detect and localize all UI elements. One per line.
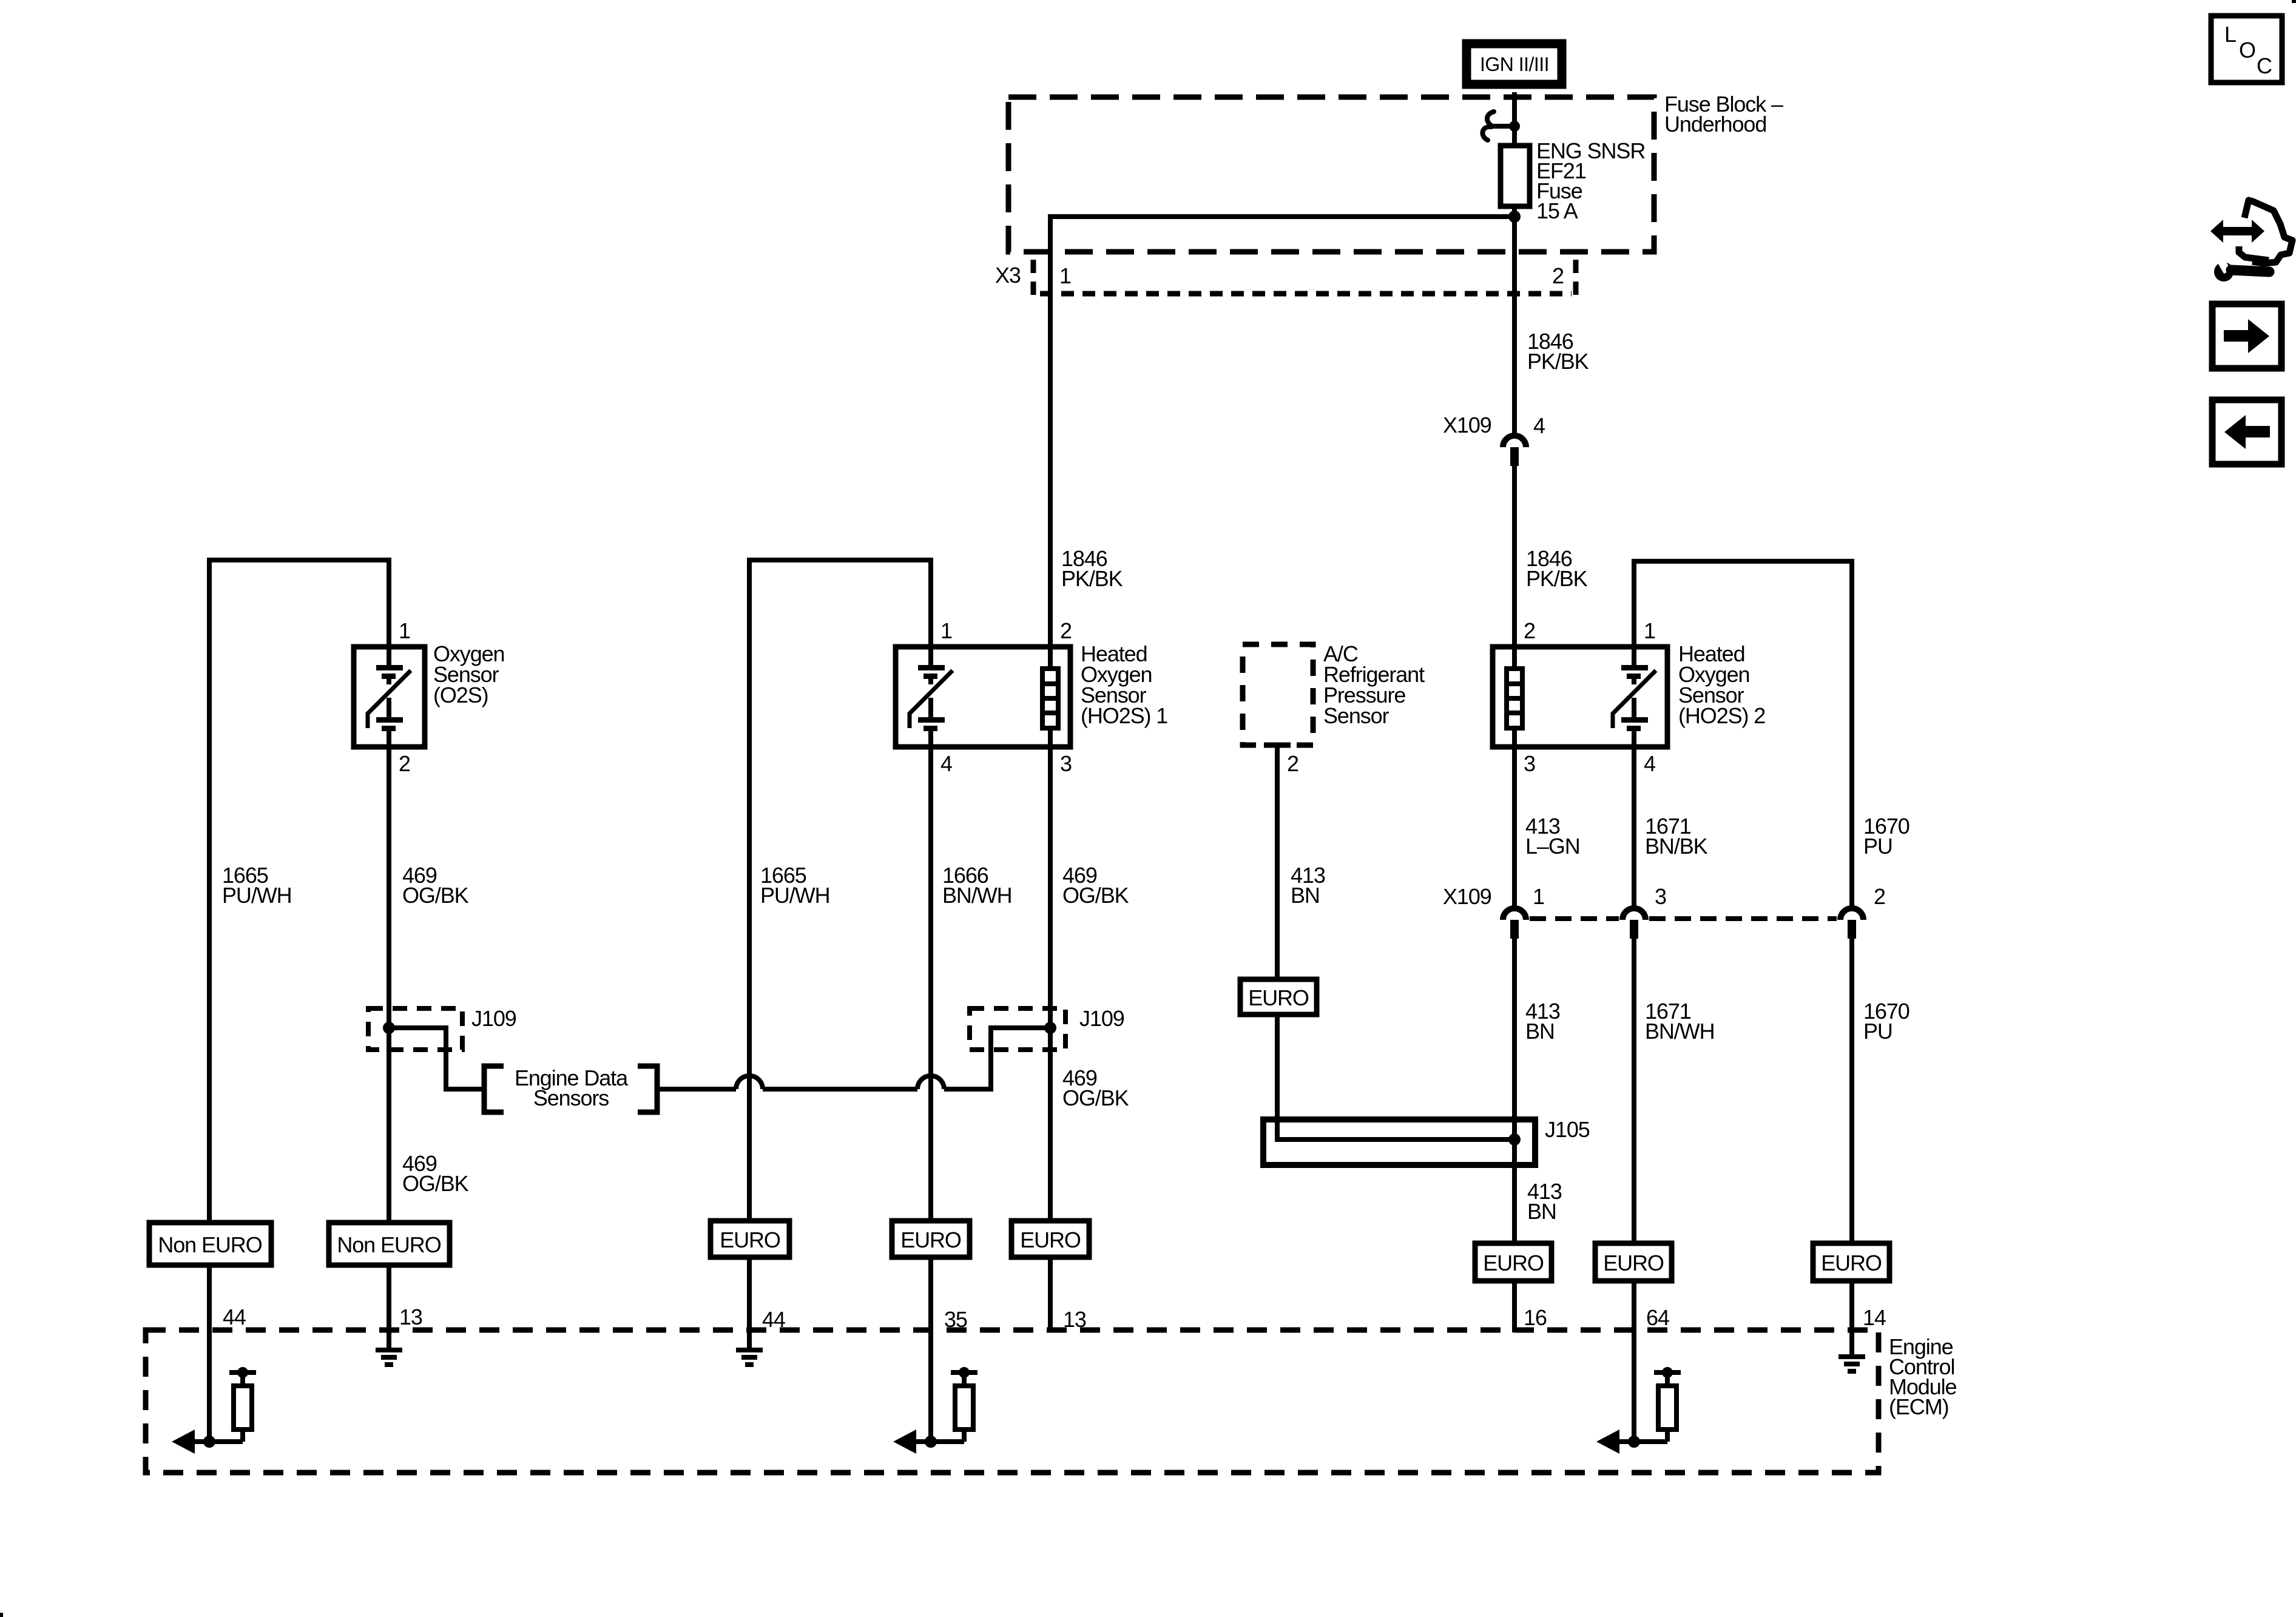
wire EURO right3 to ECM pin 14 — [1849, 1281, 1854, 1354]
label wire 413 BN (below X109) — [1525, 999, 1560, 1044]
label Fuse Block - Underhood — [1664, 92, 1783, 137]
label wire 1846 PK/BK (upper right) — [1527, 329, 1589, 374]
connector X109 pin 2 — [1840, 908, 1863, 939]
svg-text:3: 3 — [1655, 884, 1666, 909]
svg-text:IGN II/III: IGN II/III — [1480, 53, 1549, 75]
label wire 1671 BN/BK — [1645, 814, 1708, 859]
pin 2 label HO2S1 — [1060, 618, 1072, 643]
HO2S2 sensor element — [1613, 647, 1656, 747]
svg-text:15 A: 15 A — [1536, 198, 1578, 223]
pin 3 label HO2S2 — [1524, 751, 1535, 776]
label ENG SNSR EF21 Fuse 15 A — [1536, 138, 1645, 223]
svg-text:OG/BK: OG/BK — [1062, 1085, 1129, 1110]
svg-text:L: L — [2224, 22, 2236, 47]
wire HO2S2 pin3 down 413 L-GN — [1512, 747, 1517, 906]
svg-text:OG/BK: OG/BK — [402, 883, 469, 908]
fuse block underhood dashed box — [1008, 97, 1654, 252]
tag box EURO A/C — [1240, 979, 1317, 1014]
label wire 413 L-GN — [1525, 814, 1580, 859]
svg-text:2: 2 — [1552, 263, 1564, 288]
svg-text:EURO: EURO — [1821, 1251, 1882, 1275]
wire horizontal branch to X3 pin 1 — [1050, 217, 1514, 255]
wire X109 pin3 down 1671 BN/WH — [1632, 939, 1636, 1243]
wire EURO mid1 to ECM pin 44 — [747, 1257, 752, 1348]
label wire 1671 BN/WH (below X109) — [1645, 999, 1715, 1044]
svg-text:OG/BK: OG/BK — [1062, 883, 1129, 908]
svg-text:J105: J105 — [1545, 1117, 1590, 1142]
tag box EURO right 2 — [1595, 1243, 1672, 1281]
svg-text:13: 13 — [399, 1305, 422, 1329]
bracket left Engine Data Sensors — [484, 1066, 504, 1112]
pin 3 label HO2S1 — [1060, 751, 1072, 776]
tag box EURO mid 2 — [892, 1221, 970, 1257]
svg-text:16: 16 — [1524, 1305, 1547, 1330]
oxygen sensor O2S box — [354, 647, 425, 747]
label X109 (lower) — [1443, 884, 1491, 909]
label A/C Refrigerant Pressure Sensor — [1323, 641, 1425, 728]
pin 4 label X109 — [1533, 413, 1545, 438]
resistor pullup ECM pin 64 — [1654, 1367, 1681, 1442]
svg-text:3: 3 — [1524, 751, 1535, 776]
connector X109 dashed row line — [1530, 916, 1837, 921]
splice J105 box — [1263, 1119, 1535, 1165]
page corner mark top right — [2292, 0, 2296, 3]
splice J109 right dashed box — [970, 1008, 1065, 1050]
svg-text:PK/BK: PK/BK — [1526, 566, 1588, 591]
svg-text:PU: PU — [1863, 1019, 1893, 1044]
svg-text:BN: BN — [1525, 1019, 1555, 1044]
label wire 1670 PU (below X109) — [1863, 999, 1909, 1044]
wire top-right horizontal HO2S2 pin1 branch 1670 PU — [1634, 561, 1852, 906]
splice dot J109 right — [1044, 1022, 1056, 1034]
pin 1 label X109 — [1533, 884, 1544, 909]
wire top-left horizontal O2S pin1 branch — [209, 560, 389, 1223]
svg-text:(HO2S) 1: (HO2S) 1 — [1081, 703, 1167, 728]
tag box EURO mid 3 — [1011, 1221, 1089, 1257]
connector X109 pin 3 — [1622, 908, 1646, 939]
svg-text:X3: X3 — [995, 263, 1021, 288]
svg-text:EURO: EURO — [1020, 1227, 1081, 1252]
pin 44 label ECM left — [223, 1305, 246, 1329]
wire HO2S1 pin4 down 1666 BN/WH — [928, 747, 933, 1224]
ground symbol ECM pin 44 mid — [736, 1348, 763, 1367]
svg-text:2: 2 — [1060, 618, 1072, 643]
pin 1 label X3 — [1059, 263, 1071, 288]
label wire 1666 BN/WH (mid) — [942, 863, 1012, 908]
svg-text:PK/BK: PK/BK — [1527, 349, 1589, 374]
svg-text:PU/WH: PU/WH — [760, 883, 830, 908]
icon box arrow left — [2212, 400, 2281, 464]
junction dot at fuse top — [1509, 121, 1520, 132]
svg-text:2: 2 — [1287, 751, 1298, 776]
wire X3 pin 2 drop — [1512, 217, 1517, 433]
svg-text:C: C — [2257, 53, 2272, 78]
label J109 left — [471, 1006, 516, 1031]
label Oxygen Sensor (O2S) — [433, 641, 504, 707]
svg-text:PK/BK: PK/BK — [1061, 566, 1123, 591]
svg-text:3: 3 — [1060, 751, 1072, 776]
svg-text:1: 1 — [1644, 618, 1655, 643]
pin 3 label X109 — [1655, 884, 1666, 909]
svg-text:2: 2 — [1874, 884, 1885, 909]
svg-text:OG/BK: OG/BK — [402, 1171, 469, 1196]
svg-text:2: 2 — [1524, 618, 1535, 643]
svg-text:Non EURO: Non EURO — [158, 1232, 262, 1257]
arrow internal ECM pin 64 — [1596, 1430, 1667, 1454]
pin 64 label ECM — [1646, 1305, 1669, 1330]
pin 4 label HO2S1 — [940, 751, 952, 776]
bracket right Engine Data Sensors — [638, 1066, 657, 1112]
svg-text:64: 64 — [1646, 1305, 1669, 1330]
wire fuse bottom to junction — [1512, 206, 1517, 219]
label wire 469 OG/BK (mid upper) — [1062, 863, 1129, 908]
label Heated Oxygen Sensor (HO2S) 2 — [1678, 641, 1765, 728]
resistor pullup ECM pin 44 — [229, 1367, 256, 1442]
svg-text:L–GN: L–GN — [1525, 834, 1580, 859]
arrow internal ECM pin 35 — [893, 1430, 964, 1454]
wire X109 pin4 to HO2S2 pin 2 — [1512, 466, 1517, 647]
label J105 — [1545, 1117, 1590, 1142]
svg-text:BN/WH: BN/WH — [1645, 1019, 1715, 1044]
wire X109 pin2 down 1670 PU — [1849, 939, 1854, 1243]
tag box EURO right 3 — [1813, 1243, 1889, 1281]
svg-text:EURO: EURO — [1483, 1251, 1544, 1275]
wire X109 pin1 down 413 BN — [1512, 939, 1517, 1243]
heated oxygen sensor HO2S2 box — [1493, 647, 1667, 747]
svg-text:1: 1 — [940, 618, 952, 643]
HO2S1 heater element — [1042, 647, 1058, 747]
label X3 — [995, 263, 1021, 288]
wire EURO A/C to J105 — [1277, 1014, 1510, 1139]
svg-text:X109: X109 — [1443, 884, 1491, 909]
O2S sensor element — [368, 647, 411, 747]
svg-text:EURO: EURO — [720, 1227, 780, 1252]
label wire 1665 PU/WH (mid) — [760, 863, 830, 908]
svg-text:1: 1 — [1533, 884, 1544, 909]
svg-text:EURO: EURO — [1248, 985, 1309, 1010]
tag box EURO right 1 — [1475, 1243, 1551, 1281]
pin 1 label O2S — [399, 618, 410, 643]
ground symbol ECM pin 14 — [1838, 1354, 1865, 1374]
svg-text:4: 4 — [1644, 751, 1655, 776]
label X109 (upper) — [1443, 413, 1491, 437]
svg-text:BN: BN — [1527, 1199, 1556, 1224]
wire EURO right1 to ECM pin 16 — [1512, 1281, 1517, 1332]
svg-text:Sensor: Sensor — [1323, 703, 1389, 728]
svg-text:J109: J109 — [1079, 1006, 1124, 1031]
pin 2 label X109 — [1874, 884, 1885, 909]
svg-text:BN: BN — [1291, 883, 1320, 908]
page corner mark bottom left — [0, 1613, 3, 1617]
label wire 1846 PK/BK (mid right branch) — [1526, 546, 1588, 591]
tag box EURO mid 1 — [711, 1221, 789, 1257]
svg-text:(O2S): (O2S) — [433, 683, 488, 707]
icon hand with wrench — [2210, 200, 2292, 282]
svg-text:1: 1 — [1059, 263, 1071, 288]
HO2S1 sensor element — [910, 647, 953, 747]
pin 13 label ECM mid — [1063, 1307, 1086, 1332]
wire J109 left tap to Engine Data Sensors bracket — [389, 1028, 482, 1089]
label J109 right — [1079, 1006, 1124, 1031]
fuse ENG SNSR EF21 15A body — [1501, 146, 1530, 206]
svg-text:PU: PU — [1863, 834, 1893, 859]
connector X109 pin 1 — [1503, 908, 1526, 939]
splice dot J109 left — [383, 1022, 395, 1034]
svg-text:2: 2 — [399, 751, 410, 776]
svg-text:BN/WH: BN/WH — [942, 883, 1012, 908]
pin 44 label ECM mid — [762, 1307, 785, 1332]
tag box Non EURO right — [329, 1223, 450, 1265]
splice dot J105 — [1508, 1133, 1521, 1146]
fuse clip symbol — [1482, 112, 1514, 140]
pin 14 label ECM — [1863, 1305, 1886, 1330]
svg-text:EURO: EURO — [1603, 1251, 1664, 1275]
connector X3 row — [1033, 260, 1576, 299]
pin 4 label HO2S2 — [1644, 751, 1655, 776]
svg-text:Non EURO: Non EURO — [337, 1232, 441, 1257]
svg-text:Sensors: Sensors — [533, 1085, 609, 1110]
wire X3 pin1 down (1846 PK/BK to HO2S1) — [1048, 255, 1053, 647]
wire top-mid horizontal HO2S1 pin1 branch — [749, 560, 931, 1221]
wire EURO mid3 to ECM pin 13 — [1048, 1257, 1053, 1332]
label wire 469 OG/BK (left lower) — [402, 1151, 469, 1196]
svg-text:44: 44 — [223, 1305, 246, 1329]
label wire 469 OG/BK (mid lower) — [1062, 1065, 1129, 1110]
label Heated Oxygen Sensor (HO2S) 1 — [1081, 641, 1167, 728]
wire from Non EURO right to ECM pin 13 ground — [387, 1265, 391, 1348]
wire from Non EURO left to ECM pin 44 — [207, 1265, 212, 1442]
svg-text:PU/WH: PU/WH — [222, 883, 292, 908]
A/C refrigerant pressure sensor dashed box — [1243, 644, 1313, 745]
pin 35 label ECM mid — [944, 1307, 967, 1332]
svg-text:Underhood: Underhood — [1664, 112, 1766, 137]
icon box arrow right — [2212, 304, 2281, 368]
pin 1 label HO2S1 — [940, 618, 952, 643]
pin 16 label ECM — [1524, 1305, 1547, 1330]
wire Engine Data Sensors to J109 right with hops — [657, 1028, 1050, 1089]
engine control module ECM dashed box — [146, 1330, 1879, 1473]
label Engine Data Sensors — [515, 1065, 629, 1110]
power feed IGN II/III — [1467, 44, 1562, 84]
label wire 413 BN (below J105) — [1527, 1179, 1562, 1224]
svg-text:J109: J109 — [471, 1006, 516, 1031]
wire O2S pin2 down 469 OG/BK — [387, 747, 391, 1224]
pin 2 label A/C sensor — [1287, 751, 1298, 776]
svg-text:14: 14 — [1863, 1305, 1886, 1330]
svg-text:X109: X109 — [1443, 413, 1491, 437]
resistor pullup ECM pin 35 — [951, 1367, 977, 1442]
pin 2 label X3 — [1552, 263, 1564, 288]
pin 13 label ECM left — [399, 1305, 422, 1329]
heated oxygen sensor HO2S1 box — [896, 647, 1070, 747]
label Engine Control Module (ECM) — [1889, 1334, 1957, 1419]
wire HO2S2 pin4 down 1671 BN/BK — [1632, 747, 1636, 906]
svg-text:EURO: EURO — [900, 1227, 961, 1252]
svg-text:(HO2S) 2: (HO2S) 2 — [1678, 703, 1765, 728]
pin 2 label HO2S2 — [1524, 618, 1535, 643]
wire EURO mid2 to ECM pin 35 — [928, 1257, 933, 1442]
label wire 1670 PU (upper) — [1863, 814, 1909, 859]
A/C sensor pin 2 stub — [1264, 745, 1291, 979]
svg-text:O: O — [2239, 38, 2255, 62]
label wire 413 BN (A/C) — [1291, 863, 1325, 908]
label wire 1846 PK/BK (mid left branch) — [1061, 546, 1123, 591]
splice J109 left dashed box — [368, 1008, 462, 1050]
svg-text:BN/BK: BN/BK — [1645, 834, 1708, 859]
svg-text:(ECM): (ECM) — [1889, 1394, 1948, 1419]
wire EURO right2 to ECM pin 64 — [1632, 1281, 1636, 1442]
arrow internal ECM pin 44 — [172, 1430, 243, 1454]
ground symbol ECM pin 13 — [376, 1348, 402, 1367]
label wire 1665 PU/WH (left) — [222, 863, 292, 908]
svg-text:4: 4 — [1533, 413, 1545, 438]
svg-text:4: 4 — [940, 751, 952, 776]
wire IGN feed into fuse block — [1512, 92, 1517, 157]
label wire 469 OG/BK (left upper) — [402, 863, 469, 908]
wire HO2S1 pin3 down 469 OG/BK — [1048, 747, 1053, 1224]
connector X109 pin 4 inline — [1503, 436, 1526, 466]
HO2S2 heater element — [1507, 647, 1522, 747]
legend LOC box — [2211, 16, 2282, 83]
pin 2 label O2S — [399, 751, 410, 776]
junction dot below fuse — [1508, 211, 1521, 223]
svg-text:1: 1 — [399, 618, 410, 643]
tag box Non EURO left — [149, 1223, 271, 1265]
pin 1 label HO2S2 — [1644, 618, 1655, 643]
